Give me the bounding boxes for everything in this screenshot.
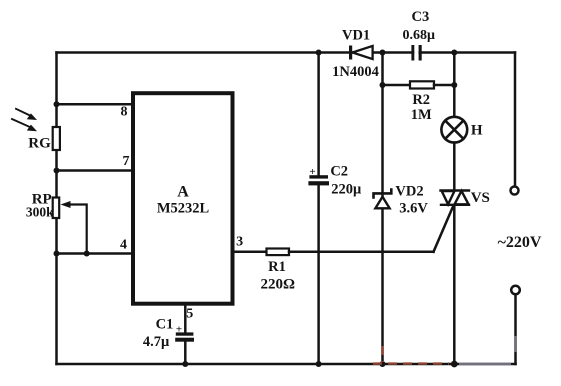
resistor R1 — [267, 249, 290, 256]
node C3 right — [451, 50, 457, 56]
light arrow 2 — [12, 119, 37, 131]
svg-text:VS: VS — [471, 190, 490, 206]
wire triac to bottom — [453, 205, 456, 364]
wire top rail right part — [420, 51, 515, 54]
svg-text:3: 3 — [236, 234, 243, 249]
wire lamp branch upper — [453, 53, 456, 118]
svg-text:H: H — [471, 123, 483, 139]
svg-text:220Ω: 220Ω — [260, 277, 295, 293]
svg-text:~220V: ~220V — [498, 234, 542, 251]
wire left rail — [55, 53, 58, 365]
svg-text:+: + — [309, 166, 315, 178]
terminal lower AC — [511, 286, 520, 295]
svg-text:A: A — [177, 184, 189, 201]
node RP wiper-pin4 — [84, 251, 90, 257]
diode VD1 — [349, 46, 373, 60]
wire R2 right — [434, 84, 454, 87]
IC A M5232L — [133, 93, 233, 304]
svg-text:R1: R1 — [268, 259, 286, 275]
node R2 right — [451, 82, 457, 88]
triac VS — [441, 191, 470, 205]
terminal upper AC — [511, 187, 519, 195]
capacitor C2 — [308, 175, 329, 185]
svg-text:1N4004: 1N4004 — [332, 64, 379, 80]
node C2 bottom — [316, 361, 322, 367]
svg-text:1M: 1M — [411, 107, 432, 123]
zener diode VD2 — [374, 190, 392, 209]
wire C2 branch lower — [317, 185, 320, 364]
node pin8-left rail — [54, 101, 60, 107]
light arrow 1 — [16, 109, 37, 120]
wire bottom rail — [57, 363, 516, 366]
wire right rail upper — [514, 53, 517, 187]
node pin4-left rail — [54, 251, 60, 257]
wire right rail lower — [514, 295, 517, 364]
node VD1-C3 — [380, 50, 386, 56]
svg-text:300k: 300k — [26, 205, 54, 220]
wire gate diagonal — [434, 207, 454, 252]
node C1 bottom — [182, 361, 188, 367]
photoresistor RG — [53, 127, 60, 150]
svg-text:220μ: 220μ — [331, 181, 362, 197]
svg-text:4: 4 — [120, 238, 127, 253]
node triac bottom — [451, 361, 458, 368]
wire RP wiper — [66, 205, 87, 254]
svg-text:M5232L: M5232L — [157, 201, 210, 217]
svg-text:4.7μ: 4.7μ — [143, 334, 170, 350]
svg-text:RG: RG — [28, 136, 51, 152]
wire pin5 stub — [184, 305, 187, 334]
wire R1 to gate — [289, 251, 434, 254]
wire pin8 — [57, 103, 134, 106]
svg-text:VD2: VD2 — [395, 183, 423, 199]
wire pin3 — [235, 251, 267, 254]
potentiometer RP — [53, 198, 60, 219]
wire pin4 — [57, 252, 134, 255]
svg-text:3.6V: 3.6V — [399, 201, 428, 217]
svg-text:C2: C2 — [330, 163, 348, 179]
svg-text:VD1: VD1 — [342, 27, 370, 43]
svg-text:8: 8 — [121, 105, 128, 120]
wire pin7 — [57, 169, 134, 172]
capacitor C3 — [411, 45, 421, 61]
red watermark dashes — [373, 346, 449, 364]
node VD2 bottom — [380, 361, 386, 367]
svg-text:C3: C3 — [412, 9, 430, 25]
svg-text:R2: R2 — [412, 92, 430, 108]
svg-text:C1: C1 — [156, 317, 174, 333]
capacitor C1 — [175, 332, 194, 341]
wire C1 to bottom — [184, 342, 187, 365]
node pin7-left rail — [54, 168, 60, 174]
node R2 left — [380, 82, 386, 88]
wire C2 branch upper — [317, 53, 320, 176]
scan artifact gray segments — [459, 336, 516, 364]
wire top rail left part — [57, 51, 414, 54]
wire VD2 branch vertical — [381, 53, 384, 365]
wire R2 left — [383, 84, 411, 87]
node C2 top — [316, 50, 322, 56]
wire lamp to triac — [453, 143, 456, 191]
lamp H — [441, 117, 467, 143]
svg-text:5: 5 — [186, 306, 193, 321]
svg-text:7: 7 — [123, 154, 130, 169]
svg-text:0.68μ: 0.68μ — [402, 28, 435, 43]
resistor R2 — [410, 81, 434, 88]
svg-text:+: + — [176, 324, 182, 336]
